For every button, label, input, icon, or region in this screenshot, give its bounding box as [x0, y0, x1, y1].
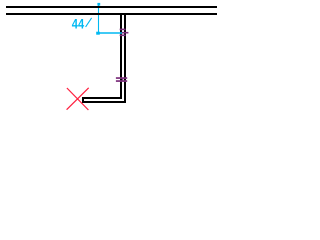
wire: purple stub right of wall: [122, 32, 129, 34]
wire: vertical wall left line: [120, 13, 122, 99]
node: red X endpoint marker stroke 2: [67, 88, 89, 110]
node: purple wall marker lower tick B: [116, 80, 127, 82]
wire: bottom wall bottom line: [82, 101, 126, 103]
wire: bottom wall top line: [82, 97, 122, 99]
node: purple connector in wall gap: [122, 78, 123, 82]
node: cyan grip dot at dimension bend: [96, 32, 100, 35]
node: purple wall marker upper tick A: [120, 29, 126, 31]
wire: top wall upper line: [6, 6, 217, 8]
wire: top wall lower line: [6, 13, 217, 15]
svg-text:44: 44: [72, 15, 84, 32]
dimension feet tick mark: [86, 18, 92, 27]
node: cyan grip square on top wall: [97, 3, 100, 6]
wire: cyan dimension vertical extension line (under walls): [98, 6, 100, 34]
node: purple wall marker upper tick B: [120, 35, 126, 37]
node: purple wall marker lower tick A: [116, 77, 127, 79]
wire: cyan dimension horizontal line: [98, 32, 123, 34]
node: red X endpoint marker stroke 1: [67, 88, 89, 110]
wire: bottom wall end cap: [82, 97, 84, 103]
wire: vertical wall right line: [124, 13, 126, 103]
